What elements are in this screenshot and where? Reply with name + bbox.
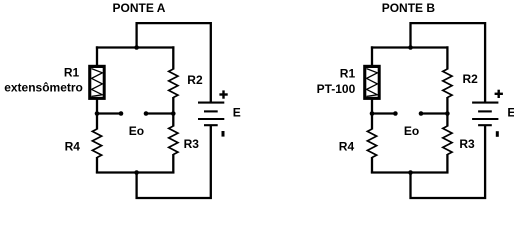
resistor R4 A bbox=[92, 129, 101, 158]
wire Eo right stub A bbox=[146, 112, 173, 114]
resistor R4 B bbox=[367, 129, 376, 158]
resistor R2 B bbox=[443, 69, 452, 98]
wire right branch upper B (top rail to R2) bbox=[446, 46, 448, 69]
node Eo left terminal A bbox=[119, 111, 124, 116]
wire right branch lower A (R3 to bottom rail) bbox=[172, 154, 174, 173]
wire Eo right stub B bbox=[421, 112, 447, 114]
resistor R3 B bbox=[443, 126, 452, 155]
resistor R1 (PT-100 box) B bbox=[363, 65, 381, 100]
wire bottom feed A (junction down, right, up to battery) bbox=[137, 126, 211, 199]
svg-text:E: E bbox=[233, 106, 241, 120]
node Eo right junction B bbox=[445, 111, 450, 116]
wire top rail bridge B bbox=[371, 46, 449, 48]
node bottom junction B bbox=[408, 170, 413, 175]
svg-text:R1: R1 bbox=[64, 66, 80, 80]
wire right branch mid A (R2 to R3 through Eo node) bbox=[172, 97, 174, 127]
wire left branch mid B (R1 to R4 through Eo node) bbox=[371, 100, 373, 130]
node Eo left junction B bbox=[370, 111, 375, 116]
wire top rail bridge A bbox=[96, 46, 174, 48]
wire bottom rail bridge B bbox=[371, 171, 449, 173]
node top junction B bbox=[408, 45, 413, 50]
wire top feed B (junction up, right, down to battery) bbox=[411, 23, 486, 102]
svg-text:PONTE B: PONTE B bbox=[382, 1, 436, 15]
battery plus sign B bbox=[495, 90, 503, 98]
svg-text:Eo: Eo bbox=[129, 124, 144, 138]
wire bottom rail bridge A bbox=[96, 171, 174, 173]
svg-text:Eo: Eo bbox=[404, 124, 419, 138]
battery plus sign A bbox=[219, 90, 227, 98]
svg-text:PT-100: PT-100 bbox=[317, 82, 356, 96]
node bottom junction A bbox=[134, 170, 139, 175]
node top junction A bbox=[134, 45, 139, 50]
node Eo left junction A bbox=[95, 111, 100, 116]
svg-text:PONTE A: PONTE A bbox=[113, 1, 166, 15]
wire top feed A (junction up, right, down to battery) bbox=[137, 23, 211, 102]
wire right branch upper A (top rail to R2) bbox=[172, 46, 174, 69]
svg-text:E: E bbox=[507, 106, 514, 120]
resistor R1 (extensometer box) A bbox=[88, 65, 106, 100]
wire left branch lower B (R4 to bottom rail) bbox=[371, 157, 373, 173]
svg-text:R4: R4 bbox=[65, 139, 81, 153]
battery minus tick B bbox=[496, 131, 499, 137]
battery E A bbox=[198, 103, 224, 126]
node Eo left terminal B bbox=[393, 111, 398, 116]
wire left branch upper A (top rail to R1) bbox=[96, 46, 98, 66]
svg-text:R4: R4 bbox=[339, 140, 355, 154]
node Eo right terminal A bbox=[144, 111, 149, 116]
svg-text:R2: R2 bbox=[187, 73, 203, 87]
battery minus tick A bbox=[222, 131, 225, 137]
wire left branch mid A (R1 to R4 through Eo node) bbox=[96, 100, 98, 130]
wire bottom feed B (junction down, right, up to battery) bbox=[411, 126, 486, 199]
svg-text:R3: R3 bbox=[459, 137, 475, 151]
node Eo right terminal B bbox=[419, 111, 424, 116]
battery E B bbox=[472, 103, 498, 126]
wire Eo left stub B bbox=[372, 112, 395, 114]
svg-text:R1: R1 bbox=[340, 66, 356, 80]
wire right branch lower B (R3 to bottom rail) bbox=[446, 154, 448, 173]
resistor R3 A bbox=[169, 126, 178, 155]
wire left branch lower A (R4 to bottom rail) bbox=[96, 157, 98, 173]
wire right branch mid B (R2 to R3 through Eo node) bbox=[446, 97, 448, 127]
wire left branch upper B (top rail to R1) bbox=[371, 46, 373, 66]
svg-text:R3: R3 bbox=[184, 137, 200, 151]
svg-text:extensômetro: extensômetro bbox=[4, 80, 83, 94]
wire Eo left stub A bbox=[97, 112, 121, 114]
node Eo right junction A bbox=[171, 111, 176, 116]
resistor R2 A bbox=[169, 69, 178, 98]
svg-text:R2: R2 bbox=[463, 72, 479, 86]
